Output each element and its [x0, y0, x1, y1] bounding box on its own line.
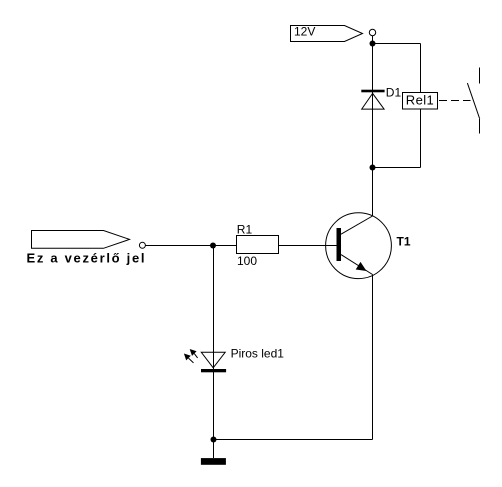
svg-text:12V: 12V	[294, 25, 315, 39]
wire junction to relay branch (horizontal)	[373, 43, 421, 45]
terminal (open circle) input	[139, 242, 145, 248]
relay coil Rel1	[403, 93, 438, 110]
svg-text:R1: R1	[237, 222, 253, 236]
wire ground stub	[213, 440, 215, 459]
resistor R1 body	[237, 236, 279, 254]
transistor T1 collector line	[341, 216, 373, 234]
wire bottom horizontal	[214, 439, 373, 441]
LED triangle	[201, 352, 225, 368]
terminal (open circle) top	[369, 29, 375, 35]
wire base node to resistor	[213, 245, 237, 247]
svg-text:Ez a vezérlő jel: Ez a vezérlő jel	[27, 250, 147, 265]
junction dot top	[370, 41, 376, 47]
wire terminal to junction	[372, 36, 374, 44]
svg-text:Piros led1: Piros led1	[231, 347, 285, 361]
wire node to collector	[372, 168, 374, 217]
relay contact upper lead	[479, 68, 481, 84]
wire base node down to LED	[213, 246, 215, 440]
ground bar	[201, 458, 226, 465]
relay contact blade	[467, 83, 479, 119]
power flag 12V	[291, 25, 363, 42]
wire 12V node down to diode	[372, 44, 374, 168]
junction dot collector node	[370, 165, 376, 171]
svg-text:Rel1: Rel1	[406, 93, 434, 108]
transistor T1 emitter line	[341, 255, 373, 275]
dashed link relay to contact	[439, 100, 471, 102]
svg-text:D1: D1	[386, 86, 402, 100]
transistor T1 body circle	[326, 213, 392, 279]
relay contact lower lead	[479, 119, 481, 134]
svg-text:T1: T1	[397, 235, 411, 249]
transistor T1 base bar	[337, 228, 342, 261]
transistor T1 emitter arrowhead	[356, 262, 367, 271]
wire emitter down	[372, 275, 374, 440]
diode D1 triangle	[362, 93, 384, 109]
junction dot ground node	[211, 437, 217, 443]
wire input to base junction	[145, 245, 213, 247]
input flag	[27, 231, 147, 266]
svg-text:100: 100	[237, 254, 257, 268]
wire relay branch to junction (horizontal)	[373, 167, 421, 169]
junction dot base node	[210, 243, 216, 249]
LED arrow 2	[184, 354, 194, 363]
wire relay branch vertical	[420, 44, 422, 168]
diode D1 cathode bar	[361, 90, 384, 93]
LED arrow 1	[190, 349, 198, 358]
wire resistor to base	[279, 245, 337, 247]
LED cathode bar	[201, 369, 226, 372]
